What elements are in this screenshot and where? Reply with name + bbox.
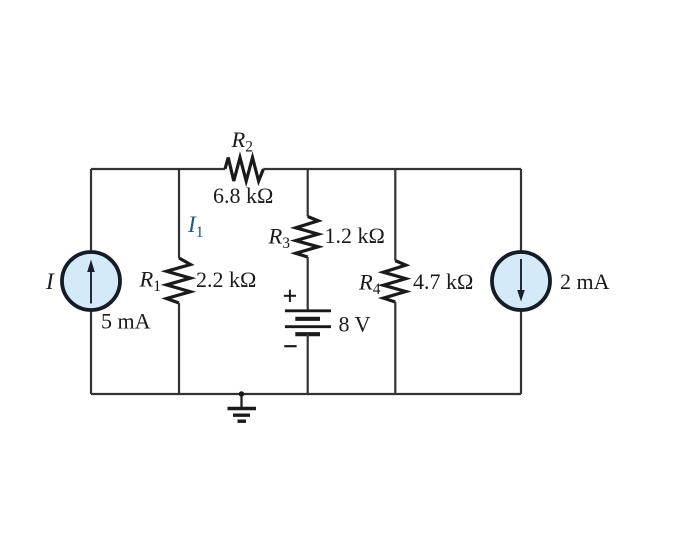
svg-text:2.2 kΩ: 2.2 kΩ: [196, 267, 256, 292]
svg-text:I: I: [45, 269, 55, 294]
wire R3 branch upper: [307, 169, 309, 217]
wire R1 branch upper: [178, 169, 180, 258]
wire R1 branch lower: [178, 303, 180, 394]
battery plate long 2: [285, 325, 331, 328]
ground junction dot: [239, 391, 245, 397]
battery E plate long 1: [285, 309, 331, 312]
svg-text:1.2 kΩ: 1.2 kΩ: [325, 223, 385, 248]
resistor R2: [225, 158, 263, 182]
wire battery to bottom: [307, 334, 309, 394]
ground bar 1: [228, 407, 257, 410]
wire R4 branch lower: [394, 302, 396, 394]
wire top-right segment: [263, 168, 521, 170]
wire left upper: [90, 169, 92, 252]
wire R3 to battery: [307, 257, 309, 310]
ground stub: [240, 394, 242, 407]
wire right lower: [520, 310, 522, 394]
ground bar 3: [238, 420, 247, 423]
wire bottom: [91, 393, 521, 395]
svg-text:R3: R3: [268, 223, 291, 252]
svg-text:R1: R1: [139, 267, 162, 296]
svg-text:8 V: 8 V: [339, 312, 371, 337]
battery plate short 2: [295, 332, 320, 336]
svg-text:4.7 kΩ: 4.7 kΩ: [413, 269, 473, 294]
svg-text:R2: R2: [231, 127, 254, 156]
current source 2mA arrow: [520, 259, 522, 292]
label plus: [284, 295, 296, 297]
current source 2mA circle: [492, 252, 550, 310]
wire right upper: [520, 169, 522, 252]
battery plate short 1: [295, 317, 320, 321]
svg-text:I1: I1: [187, 212, 204, 241]
wire left lower: [90, 310, 92, 394]
svg-text:2 mA: 2 mA: [560, 269, 610, 294]
svg-text:R4: R4: [358, 270, 381, 299]
resistor R4: [383, 261, 406, 302]
current source I circle: [62, 252, 120, 310]
ground bar 2: [233, 414, 250, 417]
resistor R3: [296, 217, 319, 258]
svg-text:6.8 kΩ: 6.8 kΩ: [213, 183, 273, 208]
svg-text:5 mA: 5 mA: [101, 309, 151, 334]
label minus: [284, 345, 296, 347]
current source I arrow: [90, 270, 92, 304]
wire R4 branch upper: [394, 169, 396, 261]
resistor R1: [167, 258, 191, 303]
wire top-left segment: [91, 168, 225, 170]
